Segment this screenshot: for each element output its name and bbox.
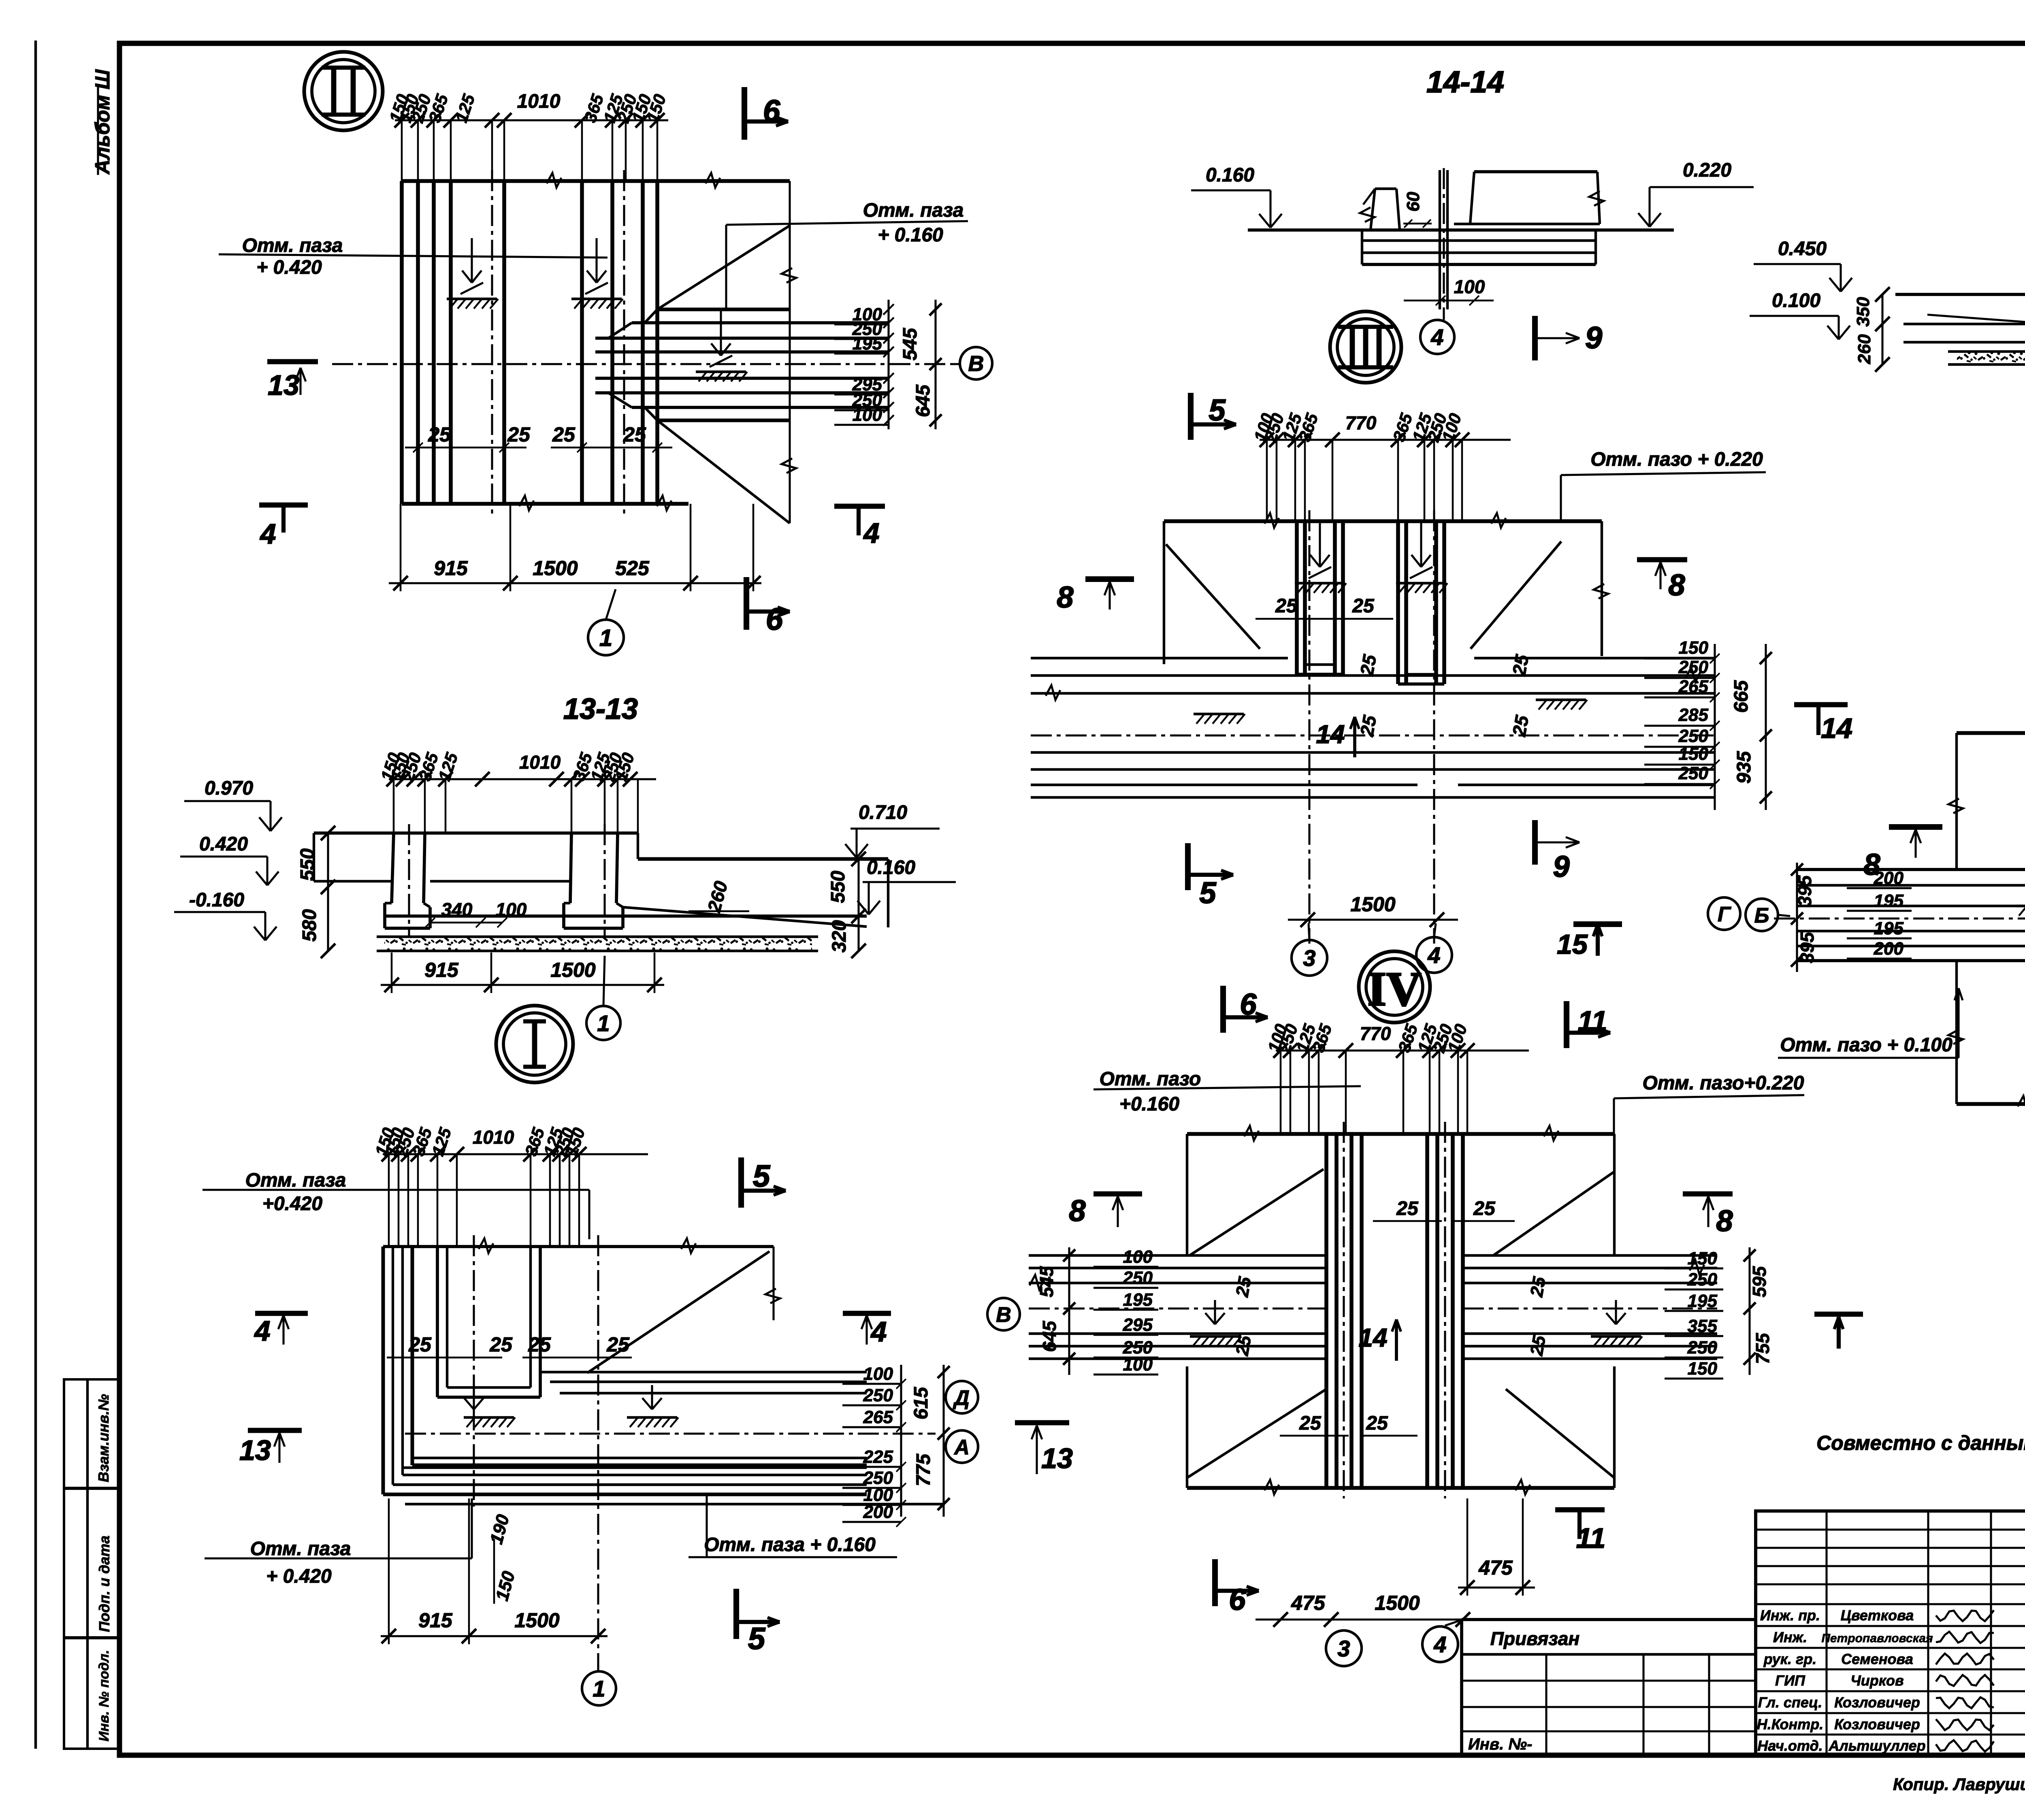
svg-text:395: 395 [1794, 875, 1815, 906]
svg-text:Подп. и дата: Подп. и дата [96, 1536, 113, 1632]
svg-text:25: 25 [1275, 595, 1298, 617]
svg-text:0.450: 0.450 [1778, 238, 1827, 260]
svg-text:14: 14 [1316, 720, 1345, 749]
svg-text:200: 200 [1874, 939, 1904, 959]
svg-text:+ 0.420: + 0.420 [256, 257, 322, 278]
svg-text:Отм. паза: Отм. паза [250, 1538, 351, 1560]
svg-text:Отм. паза: Отм. паза [245, 1170, 346, 1191]
svg-text:3: 3 [1337, 1636, 1350, 1661]
svg-text:Н.Контр.: Н.Контр. [1757, 1716, 1824, 1733]
svg-text:5: 5 [748, 1622, 766, 1656]
svg-text:0.970: 0.970 [205, 778, 253, 799]
svg-text:Козловичер: Козловичер [1834, 1694, 1920, 1711]
svg-text:Отм. паза + 0.160: Отм. паза + 0.160 [704, 1534, 876, 1556]
svg-text:595: 595 [1749, 1266, 1770, 1297]
svg-text:25: 25 [1356, 652, 1381, 678]
svg-text:475: 475 [1291, 1592, 1326, 1614]
svg-text:4: 4 [870, 1316, 887, 1347]
svg-text:250: 250 [1678, 726, 1709, 746]
svg-text:25: 25 [623, 423, 646, 446]
svg-text:25: 25 [1352, 595, 1375, 617]
svg-text:195: 195 [1688, 1291, 1718, 1311]
svg-text:6: 6 [763, 94, 780, 128]
svg-text:915: 915 [434, 557, 468, 580]
svg-text:25: 25 [1366, 1413, 1388, 1434]
svg-text:915: 915 [418, 1609, 453, 1632]
svg-text:100: 100 [1123, 1247, 1153, 1267]
svg-text:6: 6 [1229, 1583, 1246, 1616]
svg-text:0.710: 0.710 [859, 802, 907, 823]
svg-text:350: 350 [1853, 297, 1873, 327]
svg-text:+0.160: +0.160 [1119, 1093, 1179, 1115]
svg-text:545: 545 [900, 328, 921, 360]
svg-text:1: 1 [599, 625, 612, 651]
svg-text:250: 250 [863, 1385, 893, 1405]
svg-text:5: 5 [753, 1159, 771, 1193]
svg-text:0.420: 0.420 [199, 833, 248, 855]
svg-text:60: 60 [1403, 192, 1423, 211]
svg-text:320: 320 [829, 920, 850, 953]
svg-text:4: 4 [1433, 1632, 1446, 1657]
svg-text:1500: 1500 [514, 1609, 559, 1632]
svg-text:8: 8 [1716, 1204, 1733, 1238]
svg-text:Семенова: Семенова [1841, 1651, 1913, 1667]
svg-text:5: 5 [1209, 393, 1226, 427]
svg-text:770: 770 [1345, 412, 1377, 433]
svg-text:Инв. № подл.: Инв. № подл. [96, 1650, 112, 1741]
svg-text:0.220: 0.220 [1683, 160, 1731, 181]
svg-text:100: 100 [863, 1364, 893, 1384]
svg-text:545: 545 [1036, 1266, 1057, 1297]
svg-text:150: 150 [1679, 744, 1709, 764]
svg-text:0.160: 0.160 [867, 857, 915, 878]
svg-text:Альтшуллер: Альтшуллер [1828, 1737, 1925, 1754]
svg-text:25: 25 [1396, 1198, 1419, 1219]
svg-text:Д: Д [953, 1386, 970, 1410]
svg-text:25: 25 [1508, 652, 1533, 678]
svg-text:Взам.инв.№: Взам.инв.№ [95, 1394, 112, 1482]
svg-text:150: 150 [492, 1569, 519, 1603]
svg-text:25: 25 [1508, 713, 1533, 738]
svg-text:25: 25 [1473, 1198, 1496, 1219]
svg-text:1010: 1010 [519, 752, 561, 773]
svg-text:Отм. паза: Отм. паза [863, 200, 964, 221]
svg-text:295: 295 [1123, 1315, 1153, 1335]
svg-text:Отм. пазо: Отм. пазо [1100, 1068, 1201, 1090]
svg-text:150: 150 [1688, 1359, 1718, 1379]
svg-text:6: 6 [766, 602, 783, 637]
svg-text:0.160: 0.160 [1206, 164, 1254, 186]
svg-text:1: 1 [593, 1676, 605, 1701]
svg-text:150: 150 [1688, 1249, 1718, 1268]
svg-text:195: 195 [1123, 1290, 1153, 1310]
svg-text:25: 25 [552, 423, 576, 446]
svg-text:190: 190 [486, 1512, 513, 1546]
svg-text:+ 0.160: + 0.160 [878, 224, 943, 246]
svg-text:Отм. паза: Отм. паза [242, 235, 343, 256]
svg-text:А: А [953, 1436, 970, 1459]
svg-text:25: 25 [1232, 1334, 1255, 1358]
svg-text:285: 285 [1678, 705, 1709, 725]
svg-text:100: 100 [496, 899, 527, 920]
svg-text:Петропавловская: Петропавловская [1821, 1632, 1933, 1645]
svg-text:15: 15 [1557, 929, 1588, 960]
svg-text:475: 475 [1478, 1556, 1513, 1579]
svg-text:4: 4 [254, 1315, 271, 1347]
svg-text:Отм. пазо + 0.220: Отм. пазо + 0.220 [1590, 449, 1763, 470]
svg-text:1010: 1010 [517, 91, 561, 112]
svg-text:8: 8 [1668, 568, 1685, 602]
svg-text:В: В [996, 1303, 1011, 1327]
svg-text:25: 25 [528, 1333, 551, 1356]
svg-text:100: 100 [853, 405, 882, 425]
svg-text:25: 25 [1526, 1334, 1550, 1358]
svg-text:ГИП: ГИП [1775, 1672, 1805, 1689]
svg-text:260: 260 [1854, 334, 1874, 364]
svg-text:13-13: 13-13 [563, 693, 638, 725]
svg-text:Чирков: Чирков [1850, 1672, 1904, 1689]
svg-text:25: 25 [428, 423, 451, 446]
svg-text:Цветкова: Цветкова [1841, 1607, 1914, 1624]
svg-text:770: 770 [1360, 1023, 1391, 1044]
svg-text:4: 4 [260, 518, 276, 550]
svg-text:Отм. пазо+0.220: Отм. пазо+0.220 [1643, 1072, 1804, 1094]
svg-text:25: 25 [408, 1333, 432, 1356]
svg-text:4: 4 [1427, 942, 1440, 968]
svg-text:14: 14 [1821, 712, 1852, 744]
svg-text:250: 250 [1678, 763, 1709, 783]
svg-text:200: 200 [863, 1502, 893, 1522]
svg-text:250: 250 [1123, 1268, 1153, 1288]
svg-text:25: 25 [489, 1333, 513, 1356]
svg-text:Гл. спец.: Гл. спец. [1758, 1694, 1822, 1711]
svg-text:935: 935 [1733, 751, 1755, 784]
svg-text:Нач.отд.: Нач.отд. [1757, 1737, 1823, 1754]
svg-text:355: 355 [1688, 1316, 1718, 1336]
svg-text:150: 150 [1679, 638, 1709, 658]
svg-text:25: 25 [1299, 1413, 1322, 1434]
svg-text:195: 195 [853, 334, 882, 354]
svg-text:25: 25 [1232, 1275, 1255, 1299]
svg-text:1500: 1500 [533, 557, 578, 580]
svg-text:Копир. Лаврушина: Копир. Лаврушина [1893, 1775, 2025, 1794]
svg-text:8: 8 [1057, 580, 1074, 614]
svg-text:14: 14 [1358, 1323, 1387, 1352]
svg-text:195: 195 [1874, 919, 1904, 938]
svg-text:13: 13 [239, 1434, 271, 1466]
svg-text:775: 775 [913, 1453, 934, 1486]
svg-text:+0.420: +0.420 [262, 1193, 322, 1215]
svg-text:250: 250 [1687, 1338, 1718, 1358]
svg-text:915: 915 [424, 959, 459, 981]
svg-text:-0.160: -0.160 [189, 889, 244, 911]
svg-text:+ 0.420: + 0.420 [266, 1566, 332, 1587]
svg-text:225: 225 [863, 1447, 893, 1467]
svg-text:Инв. №-: Инв. №- [1468, 1735, 1532, 1753]
svg-text:25: 25 [1356, 713, 1381, 738]
svg-text:100: 100 [1454, 276, 1485, 297]
svg-text:195: 195 [1874, 891, 1904, 911]
svg-text:13: 13 [268, 369, 299, 401]
svg-text:100: 100 [1123, 1355, 1153, 1375]
svg-text:5: 5 [1199, 876, 1217, 910]
svg-text:25: 25 [507, 423, 531, 446]
svg-text:11: 11 [1576, 1522, 1606, 1554]
svg-text:13: 13 [1041, 1443, 1073, 1474]
svg-text:1: 1 [597, 1010, 610, 1036]
svg-text:Г: Г [1718, 903, 1731, 926]
svg-text:265: 265 [863, 1407, 893, 1427]
svg-text:265: 265 [1678, 677, 1709, 697]
svg-text:6: 6 [1240, 987, 1257, 1021]
svg-text:1010: 1010 [473, 1127, 514, 1148]
svg-text:9: 9 [1553, 850, 1569, 883]
svg-text:Привязан: Привязан [1490, 1628, 1579, 1649]
svg-text:260: 260 [703, 879, 731, 915]
svg-text:Совместно с данным см. л.л.: Совместно с данным см. л.л. КЖ-5,8. [1816, 1432, 2025, 1454]
svg-text:Инж. пр.: Инж. пр. [1760, 1607, 1820, 1624]
svg-text:1500: 1500 [550, 959, 595, 981]
svg-text:395: 395 [1797, 931, 1818, 963]
svg-text:1500: 1500 [1350, 893, 1395, 916]
svg-text:25: 25 [606, 1333, 630, 1356]
svg-text:25: 25 [1526, 1275, 1550, 1299]
svg-text:9: 9 [1585, 321, 1602, 355]
svg-text:250: 250 [1687, 1270, 1718, 1289]
svg-text:11: 11 [1578, 1005, 1607, 1037]
svg-text:250: 250 [1678, 657, 1709, 677]
svg-text:525: 525 [615, 557, 650, 580]
svg-text:665: 665 [1731, 680, 1752, 713]
svg-text:645: 645 [912, 384, 934, 417]
svg-text:рук. гр.: рук. гр. [1763, 1651, 1817, 1667]
svg-text:615: 615 [910, 1387, 932, 1419]
svg-text:В: В [968, 352, 984, 376]
svg-text:Инж.: Инж. [1773, 1629, 1807, 1645]
svg-text:340: 340 [441, 899, 473, 920]
svg-text:8: 8 [1863, 848, 1880, 881]
svg-text:0.100: 0.100 [1772, 290, 1820, 311]
svg-text:Альбом Ш: Альбом Ш [91, 69, 114, 175]
svg-text:Отм. пазо + 0.100: Отм. пазо + 0.100 [1780, 1034, 1953, 1056]
svg-text:3: 3 [1303, 945, 1315, 971]
svg-text:1500: 1500 [1375, 1592, 1420, 1614]
svg-text:8: 8 [1069, 1194, 1086, 1228]
svg-text:Козловичер: Козловичер [1834, 1716, 1920, 1733]
svg-text:IV: IV [1367, 962, 1421, 1016]
svg-text:14-14: 14-14 [1426, 65, 1504, 99]
svg-text:580: 580 [299, 909, 320, 942]
svg-text:4: 4 [1430, 324, 1443, 350]
svg-text:755: 755 [1752, 1332, 1773, 1364]
svg-text:645: 645 [1039, 1320, 1060, 1352]
svg-text:Б: Б [1754, 904, 1769, 927]
svg-text:550: 550 [827, 871, 849, 903]
svg-text:4: 4 [863, 517, 880, 549]
